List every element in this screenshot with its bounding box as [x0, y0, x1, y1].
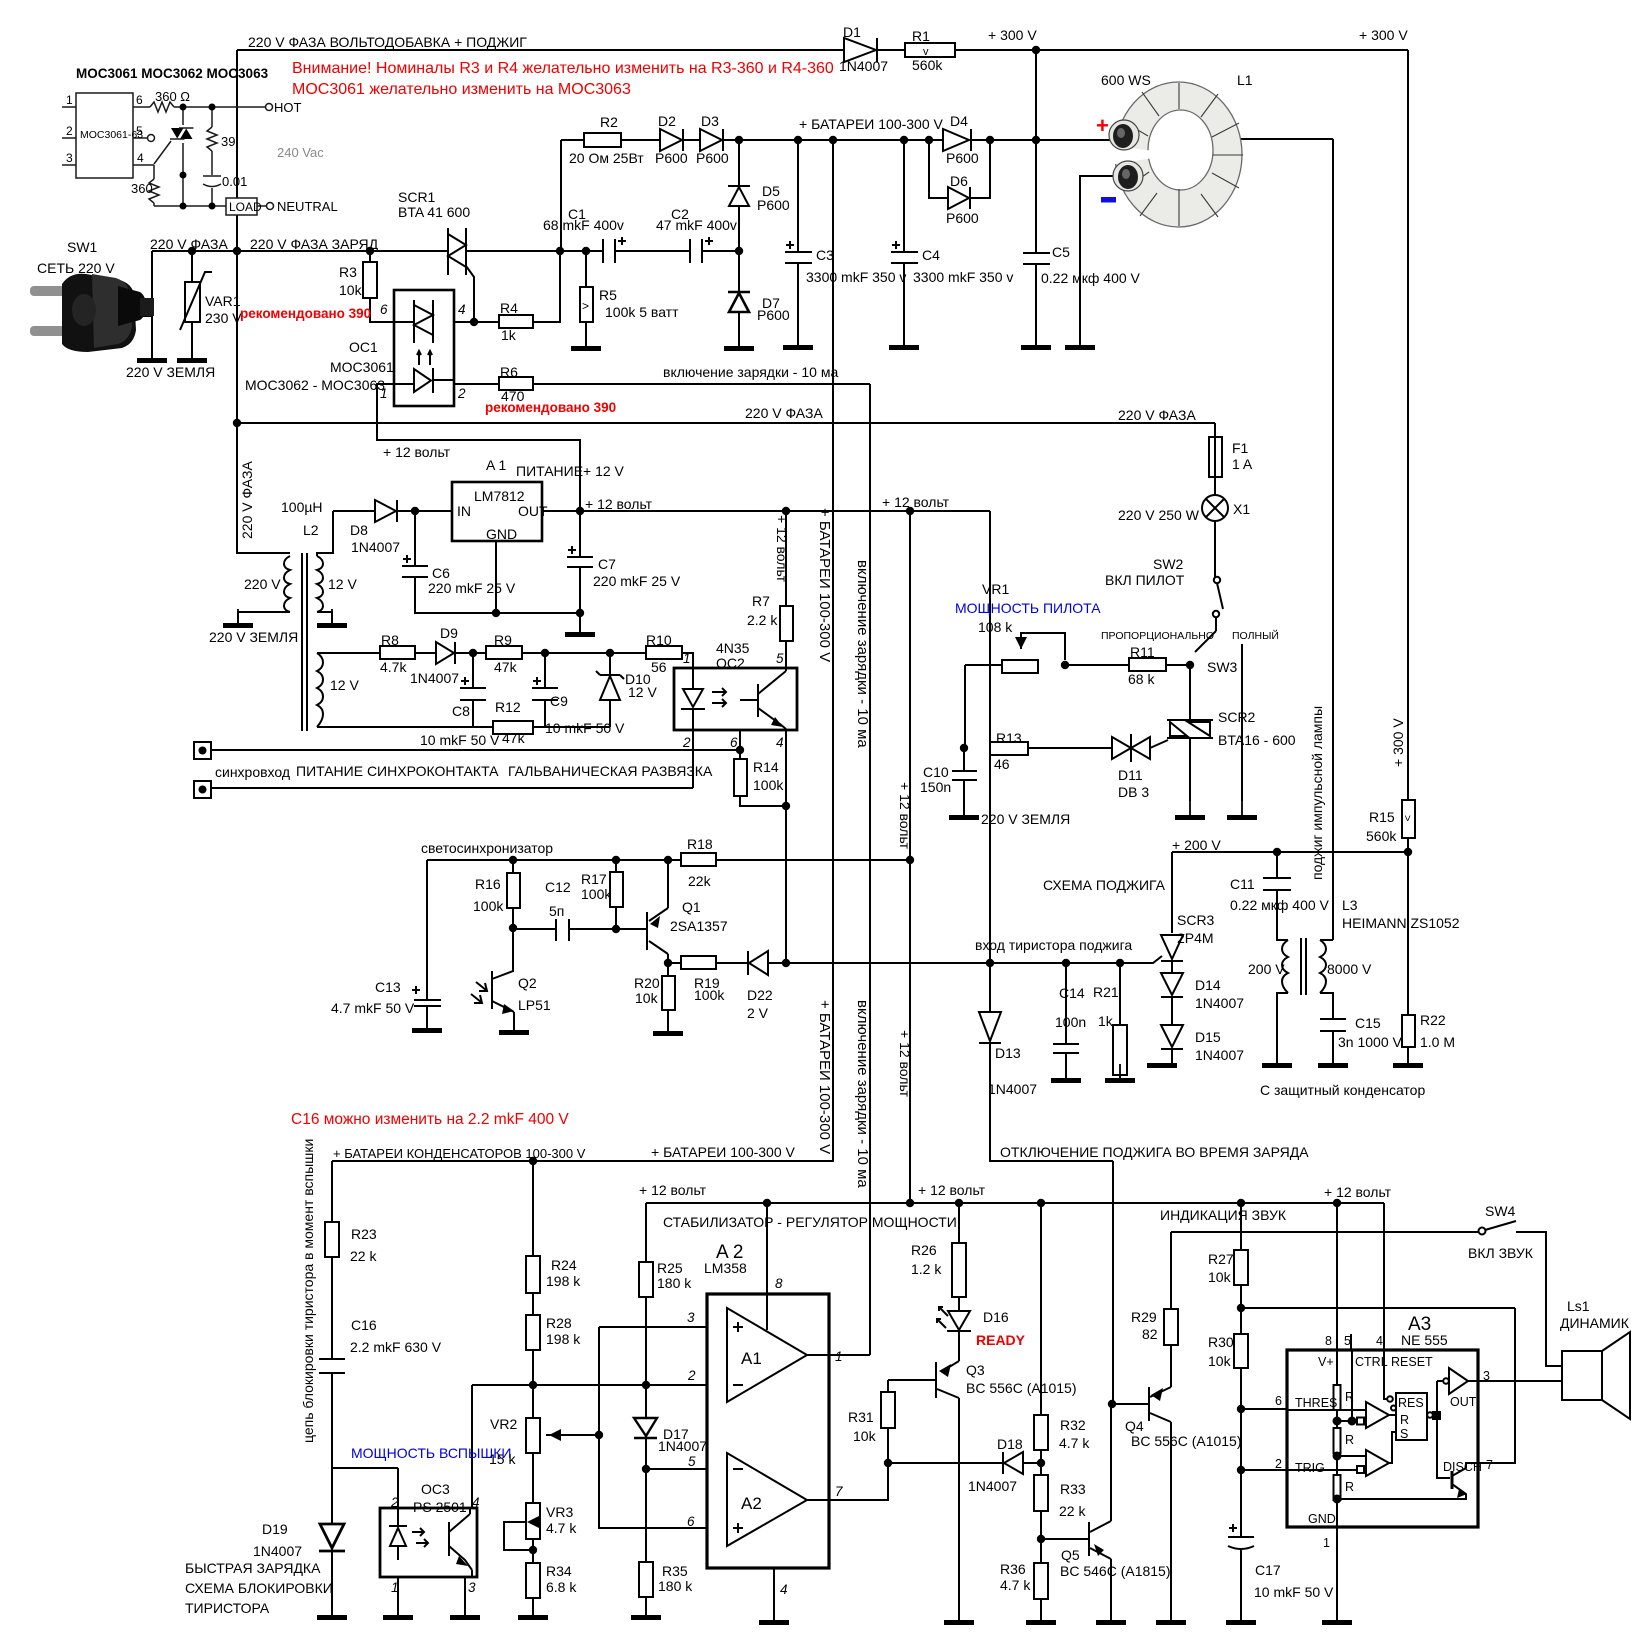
svg-text:NEUTRAL: NEUTRAL	[277, 199, 338, 214]
svg-text:Q3: Q3	[966, 1362, 985, 1378]
svg-text:МОЩНОСТЬ ВСПЫШКИ: МОЩНОСТЬ ВСПЫШКИ	[351, 1445, 511, 1461]
svg-text:100µH: 100µH	[281, 499, 323, 515]
svg-text:10k: 10k	[339, 282, 363, 298]
svg-text:+ 12 V: + 12 V	[583, 463, 625, 479]
svg-text:MOC3061 желательно изменить н: MOC3061 желательно изменить на MOC3063	[292, 81, 631, 98]
svg-text:ДИНАМИК: ДИНАМИК	[1560, 1315, 1630, 1331]
svg-text:SCR2: SCR2	[1218, 709, 1256, 725]
svg-text:C6: C6	[432, 565, 450, 581]
svg-text:100k 5 ватт: 100k 5 ватт	[605, 304, 679, 320]
svg-text:108 k: 108 k	[978, 619, 1013, 635]
svg-text:R25: R25	[657, 1260, 683, 1276]
svg-text:2.2 k: 2.2 k	[747, 612, 778, 628]
svg-text:Q4: Q4	[1125, 1418, 1144, 1434]
svg-text:5п: 5п	[549, 903, 564, 919]
svg-text:+ 12 вольт: + 12 вольт	[1324, 1184, 1392, 1200]
svg-text:LM7812: LM7812	[474, 488, 525, 504]
svg-text:7: 7	[1486, 1458, 1493, 1472]
svg-text:C15: C15	[1355, 1015, 1381, 1031]
svg-text:8000 V: 8000 V	[1327, 961, 1372, 977]
svg-text:220 V ФАЗА ЗАРЯД: 220 V ФАЗА ЗАРЯД	[250, 236, 379, 252]
svg-text:DISCH: DISCH	[1443, 1460, 1482, 1474]
svg-text:C17: C17	[1255, 1562, 1281, 1578]
svg-text:220 mkF 25 V: 220 mkF 25 V	[593, 573, 681, 589]
svg-text:5: 5	[688, 1454, 696, 1469]
svg-text:220 V ЗЕМЛЯ: 220 V ЗЕМЛЯ	[126, 364, 215, 380]
svg-text:10k: 10k	[853, 1428, 877, 1444]
svg-text:R6: R6	[500, 364, 518, 380]
svg-text:1N4007: 1N4007	[988, 1081, 1037, 1097]
svg-text:A 1: A 1	[486, 457, 506, 473]
svg-text:2SA1357: 2SA1357	[670, 918, 728, 934]
svg-text:5: 5	[776, 651, 784, 666]
svg-text:360: 360	[131, 181, 153, 196]
svg-text:LOAD: LOAD	[229, 200, 262, 214]
svg-text:P600: P600	[757, 197, 790, 213]
svg-text:D3: D3	[701, 113, 719, 129]
svg-text:0.22 мкф 400 V: 0.22 мкф 400 V	[1041, 270, 1141, 286]
svg-text:3n 1000 V: 3n 1000 V	[1338, 1034, 1402, 1050]
svg-text:Внимание! Номиналы R3 и R4 же: Внимание! Номиналы R3 и R4 желательно из…	[292, 60, 834, 77]
svg-text:OC2: OC2	[716, 655, 745, 671]
svg-text:1N4007: 1N4007	[1195, 995, 1244, 1011]
svg-text:SCR3: SCR3	[1177, 912, 1215, 928]
svg-text:CTRL: CTRL	[1355, 1355, 1388, 1369]
svg-text:3: 3	[687, 1310, 695, 1325]
svg-text:3: 3	[468, 1580, 476, 1595]
svg-text:2.2 mkF 630 V: 2.2 mkF 630 V	[350, 1339, 442, 1355]
svg-text:+ 300 V: + 300 V	[1390, 718, 1406, 767]
svg-text:1: 1	[835, 1349, 843, 1364]
svg-text:R3: R3	[339, 264, 357, 280]
svg-text:синхровход: синхровход	[215, 764, 290, 780]
svg-text:4: 4	[137, 151, 144, 165]
svg-text:4N35: 4N35	[716, 640, 750, 656]
svg-text:P600: P600	[946, 210, 979, 226]
svg-text:ГАЛЬВАНИЧЕСКАЯ РАЗВЯЗКА: ГАЛЬВАНИЧЕСКАЯ РАЗВЯЗКА	[508, 763, 713, 779]
svg-text:1 A: 1 A	[1232, 456, 1253, 472]
svg-text:1N4007: 1N4007	[351, 539, 400, 555]
svg-text:8: 8	[775, 1276, 783, 1291]
svg-text:4.7 mkF 50 V: 4.7 mkF 50 V	[331, 1000, 415, 1016]
svg-text:R11: R11	[1130, 644, 1155, 660]
svg-text:8: 8	[1325, 1334, 1332, 1348]
svg-text:ОТКЛЮЧЕНИЕ ПОДЖИГА ВО ВРЕМЯ ЗА: ОТКЛЮЧЕНИЕ ПОДЖИГА ВО ВРЕМЯ ЗАРЯДА	[1000, 1144, 1309, 1160]
svg-text:240 Vac: 240 Vac	[277, 145, 324, 160]
svg-text:включение зарядки - 10 ма: включение зарядки - 10 ма	[854, 1000, 871, 1188]
svg-text:R7: R7	[752, 593, 770, 609]
svg-text:GND: GND	[486, 526, 517, 542]
svg-text:R22: R22	[1420, 1012, 1446, 1028]
svg-text:MOC3061-63: MOC3061-63	[80, 129, 143, 141]
svg-text:BC 556C (A1015): BC 556C (A1015)	[966, 1380, 1077, 1396]
svg-text:LP51: LP51	[518, 997, 551, 1013]
svg-text:включение зарядки - 10 ма: включение зарядки - 10 ма	[854, 560, 871, 748]
svg-text:220 V ФАЗА: 220 V ФАЗА	[150, 236, 228, 252]
svg-text:+ БАТАРЕИ 100-300 V: + БАТАРЕИ 100-300 V	[799, 116, 944, 132]
svg-text:5: 5	[1344, 1334, 1351, 1348]
svg-text:R5: R5	[599, 287, 617, 303]
svg-text:1: 1	[391, 1580, 399, 1595]
svg-text:Q5: Q5	[1061, 1547, 1080, 1563]
svg-text:MOC3061 MOC3062 MOC3063: MOC3061 MOC3062 MOC3063	[76, 66, 269, 81]
svg-text:47k: 47k	[502, 730, 526, 746]
svg-text:RES: RES	[1398, 1396, 1424, 1410]
svg-text:C5: C5	[1052, 244, 1070, 260]
svg-text:R15: R15	[1369, 809, 1395, 825]
svg-text:360 Ω: 360 Ω	[155, 89, 190, 104]
svg-text:A1: A1	[741, 1349, 762, 1368]
svg-text:R32: R32	[1060, 1417, 1086, 1433]
svg-text:20 Ом 25Вт: 20 Ом 25Вт	[569, 150, 644, 166]
svg-text:2: 2	[687, 1368, 696, 1383]
svg-text:MOC3061: MOC3061	[330, 359, 394, 375]
svg-text:R14: R14	[753, 759, 779, 775]
svg-text:СХЕМА ПОДЖИГА: СХЕМА ПОДЖИГА	[1043, 877, 1166, 893]
svg-text:C10: C10	[923, 764, 949, 780]
svg-text:+ 300 V: + 300 V	[988, 27, 1037, 43]
svg-text:SCR1: SCR1	[398, 189, 436, 205]
svg-text:47 mkF 400v: 47 mkF 400v	[656, 217, 737, 233]
svg-text:>: >	[1401, 815, 1413, 821]
svg-text:OUT: OUT	[1450, 1395, 1477, 1409]
svg-text:R8: R8	[381, 632, 399, 648]
svg-text:цепь блокировки тиристора в мо: цепь блокировки тиристора в момент вспыш…	[300, 1139, 316, 1443]
svg-text:+ 12 вольт: + 12 вольт	[585, 496, 653, 512]
svg-text:R9: R9	[494, 632, 512, 648]
svg-text:4: 4	[472, 1495, 480, 1510]
svg-text:22 k: 22 k	[350, 1248, 377, 1264]
svg-text:68 mkF 400v: 68 mkF 400v	[543, 217, 624, 233]
svg-text:SW2: SW2	[1153, 556, 1184, 572]
svg-text:OUT: OUT	[518, 503, 548, 519]
svg-text:READY: READY	[976, 1332, 1026, 1348]
svg-text:12 V: 12 V	[328, 576, 357, 592]
svg-text:6.8 k: 6.8 k	[546, 1579, 577, 1595]
svg-text:A2: A2	[741, 1494, 762, 1513]
svg-text:D11: D11	[1118, 767, 1143, 783]
svg-text:L2: L2	[303, 522, 319, 538]
svg-text:R35: R35	[662, 1563, 688, 1579]
svg-text:R: R	[1345, 1480, 1354, 1494]
svg-text:F1: F1	[1232, 440, 1249, 456]
svg-text:С защитный конденсатор: С защитный конденсатор	[1260, 1082, 1425, 1098]
svg-text:10k: 10k	[635, 990, 659, 1006]
svg-text:1.2 k: 1.2 k	[911, 1261, 942, 1277]
svg-text:68 k: 68 k	[1128, 671, 1155, 687]
svg-text:22k: 22k	[688, 873, 712, 889]
svg-text:6: 6	[136, 93, 143, 107]
svg-text:HOT: HOT	[274, 100, 302, 115]
svg-text:P600: P600	[696, 150, 729, 166]
svg-text:HEIMANN ZS1052: HEIMANN ZS1052	[1342, 915, 1460, 931]
svg-text:2: 2	[1275, 1457, 1282, 1471]
svg-text:12 V: 12 V	[330, 677, 359, 693]
svg-text:C12: C12	[545, 879, 571, 895]
svg-text:D16: D16	[983, 1309, 1009, 1325]
svg-text:220 V ЗЕМЛЯ: 220 V ЗЕМЛЯ	[209, 629, 298, 645]
svg-text:1N4007: 1N4007	[1195, 1047, 1244, 1063]
svg-text:С16 можно изменить на 2.2 mkF: С16 можно изменить на 2.2 mkF 400 V	[291, 1111, 569, 1128]
svg-text:СТАБИЛИЗАТОР - РЕГУЛЯТОР МОЩНО: СТАБИЛИЗАТОР - РЕГУЛЯТОР МОЩНОСТИ	[663, 1214, 957, 1230]
svg-text:0.01: 0.01	[222, 174, 247, 189]
svg-text:+ 12 вольт: + 12 вольт	[774, 515, 790, 583]
svg-text:SW4: SW4	[1485, 1203, 1516, 1219]
svg-text:+: +	[1096, 113, 1109, 138]
svg-text:ВКЛ ЗВУК: ВКЛ ЗВУК	[1468, 1245, 1534, 1261]
svg-text:3: 3	[66, 151, 73, 165]
svg-text:1: 1	[66, 93, 73, 107]
svg-text:R: R	[1345, 1433, 1354, 1447]
svg-text:220 mkF 25 V: 220 mkF 25 V	[428, 580, 516, 596]
svg-text:5: 5	[136, 124, 143, 138]
svg-text:LM358: LM358	[704, 1260, 747, 1276]
svg-text:150n: 150n	[920, 779, 951, 795]
svg-text:C8: C8	[452, 703, 470, 719]
svg-text:4.7 k: 4.7 k	[1000, 1577, 1031, 1593]
svg-text:D1: D1	[843, 24, 861, 40]
svg-text:MOC3062 - MOC3063: MOC3062 - MOC3063	[245, 377, 385, 393]
svg-text:ТИРИСТОРА: ТИРИСТОРА	[185, 1600, 270, 1616]
svg-text:198 k: 198 k	[546, 1273, 581, 1289]
svg-text:P600: P600	[655, 150, 688, 166]
svg-text:+ 12 вольт: + 12 вольт	[882, 494, 950, 510]
svg-text:1: 1	[1323, 1536, 1330, 1550]
svg-text:P600: P600	[946, 150, 979, 166]
svg-text:рекомендовано 390: рекомендовано 390	[485, 400, 616, 415]
svg-text:56: 56	[651, 659, 667, 675]
svg-text:1k: 1k	[1098, 1013, 1114, 1029]
svg-text:560k: 560k	[912, 57, 943, 73]
svg-text:1N4007: 1N4007	[253, 1543, 302, 1559]
svg-text:NE 555: NE 555	[1401, 1332, 1448, 1348]
svg-text:1: 1	[380, 386, 388, 401]
svg-text:BTA16 - 600: BTA16 - 600	[1218, 732, 1296, 748]
svg-text:вход тиристора поджига: вход тиристора поджига	[975, 937, 1132, 953]
svg-text:0.22 мкф 400 V: 0.22 мкф 400 V	[1230, 897, 1330, 913]
svg-text:600 WS: 600 WS	[1101, 72, 1151, 88]
svg-text:R18: R18	[687, 836, 713, 852]
svg-text:15 k: 15 k	[489, 1451, 516, 1467]
svg-text:СЕТЬ 220 V: СЕТЬ 220 V	[37, 260, 115, 276]
svg-text:BTA 41 600: BTA 41 600	[398, 204, 470, 220]
svg-text:+ 12 вольт: + 12 вольт	[918, 1182, 986, 1198]
svg-text:1.0 M: 1.0 M	[1420, 1034, 1455, 1050]
svg-text:D15: D15	[1195, 1029, 1221, 1045]
svg-text:R27: R27	[1208, 1251, 1234, 1267]
svg-text:R16: R16	[475, 876, 501, 892]
svg-text:220 V 250 W: 220 V 250 W	[1118, 507, 1200, 523]
svg-text:7: 7	[835, 1484, 843, 1499]
svg-text:+ БАТАРЕИ 100-300 V: + БАТАРЕИ 100-300 V	[651, 1144, 796, 1160]
svg-text:+ 12 вольт: + 12 вольт	[383, 444, 451, 460]
svg-text:R12: R12	[495, 699, 521, 715]
svg-text:1N4007: 1N4007	[410, 670, 459, 686]
svg-text:4: 4	[780, 1582, 788, 1597]
svg-text:6: 6	[730, 735, 738, 750]
svg-text:C4: C4	[922, 247, 940, 263]
svg-text:C13: C13	[375, 979, 401, 995]
svg-text:BC 546C (A1815): BC 546C (A1815)	[1060, 1563, 1171, 1579]
svg-text:R1: R1	[912, 28, 930, 44]
svg-text:BC 556C (A1015): BC 556C (A1015)	[1131, 1433, 1242, 1449]
svg-text:R24: R24	[551, 1257, 577, 1273]
svg-text:R29: R29	[1131, 1309, 1157, 1325]
svg-text:180 k: 180 k	[657, 1275, 692, 1291]
svg-text:D4: D4	[950, 113, 968, 129]
svg-text:2: 2	[390, 1495, 399, 1510]
svg-text:198 k: 198 k	[546, 1331, 581, 1347]
svg-text:6: 6	[687, 1514, 695, 1529]
svg-text:R17: R17	[581, 871, 607, 887]
svg-text:200 V: 200 V	[1248, 961, 1285, 977]
svg-text:2P4M: 2P4M	[1177, 930, 1214, 946]
svg-text:C11: C11	[1230, 876, 1255, 892]
svg-text:180 k: 180 k	[658, 1578, 693, 1594]
svg-text:RESET: RESET	[1391, 1355, 1433, 1369]
svg-text:IN: IN	[457, 503, 471, 519]
svg-text:S: S	[1400, 1427, 1408, 1441]
svg-text:4.7 k: 4.7 k	[546, 1520, 577, 1536]
svg-text:R36: R36	[1000, 1561, 1026, 1577]
svg-text:R10: R10	[646, 632, 672, 648]
svg-text:GND: GND	[1308, 1512, 1336, 1526]
svg-text:2: 2	[457, 386, 466, 401]
svg-text:10k: 10k	[1208, 1269, 1232, 1285]
svg-text:D19: D19	[262, 1521, 288, 1537]
svg-text:D9: D9	[440, 625, 458, 641]
svg-text:230 V: 230 V	[205, 310, 242, 326]
svg-text:БЫСТРАЯ ЗАРЯДКА: БЫСТРАЯ ЗАРЯДКА	[185, 1560, 321, 1576]
svg-text:220 V ФАЗА: 220 V ФАЗА	[745, 405, 823, 421]
svg-text:2: 2	[66, 124, 73, 138]
svg-text:+ 12 вольт: + 12 вольт	[639, 1182, 707, 1198]
svg-text:D13: D13	[995, 1045, 1021, 1061]
svg-text:1: 1	[683, 651, 691, 666]
svg-text:ПИТАНИЕ: ПИТАНИЕ	[516, 463, 583, 479]
svg-text:100k: 100k	[694, 987, 725, 1003]
svg-text:R20: R20	[634, 975, 660, 991]
svg-text:+ БАТАРЕИ КОНДЕНСАТОРОВ 100-: + БАТАРЕИ КОНДЕНСАТОРОВ 100-300 V	[333, 1146, 586, 1161]
svg-text:R: R	[1400, 1413, 1409, 1427]
svg-text:включение зарядки - 10 ма: включение зарядки - 10 ма	[663, 364, 838, 380]
svg-text:4: 4	[458, 302, 466, 317]
svg-text:1k: 1k	[501, 327, 517, 343]
svg-text:10k: 10k	[1208, 1353, 1232, 1369]
svg-text:VR3: VR3	[546, 1504, 573, 1520]
svg-text:R28: R28	[546, 1315, 572, 1331]
svg-text:47k: 47k	[494, 659, 518, 675]
svg-text:Q1: Q1	[682, 899, 701, 915]
svg-text:220 V ФАЗА: 220 V ФАЗА	[1118, 407, 1196, 423]
svg-text:светосинхронизатор: светосинхронизатор	[421, 840, 553, 856]
svg-text:D6: D6	[950, 173, 968, 189]
svg-text:R21: R21	[1093, 984, 1119, 1000]
svg-text:R31: R31	[848, 1409, 874, 1425]
svg-text:OC3: OC3	[421, 1481, 450, 1497]
svg-text:поджиг импульсной лампы: поджиг импульсной лампы	[1309, 706, 1325, 880]
svg-text:22 k: 22 k	[1059, 1503, 1086, 1519]
svg-text:+ 300 V: + 300 V	[1359, 27, 1408, 43]
svg-text:C3: C3	[816, 247, 834, 263]
svg-text:R30: R30	[1208, 1334, 1234, 1350]
svg-text:R13: R13	[996, 730, 1022, 746]
svg-text:R26: R26	[911, 1242, 937, 1258]
svg-text:D18: D18	[997, 1436, 1023, 1452]
svg-text:PS 2501: PS 2501	[413, 1499, 467, 1515]
svg-text:560k: 560k	[1366, 828, 1397, 844]
svg-text:3: 3	[1483, 1369, 1490, 1383]
svg-text:DB 3: DB 3	[1118, 784, 1149, 800]
svg-text:Ls1: Ls1	[1567, 1298, 1590, 1314]
svg-text:100n: 100n	[1055, 1014, 1086, 1030]
svg-text:OC1: OC1	[349, 339, 378, 355]
svg-text:C14: C14	[1059, 985, 1085, 1001]
svg-text:6: 6	[1275, 1394, 1282, 1408]
svg-text:46: 46	[994, 756, 1010, 772]
svg-text:10 mkF 50 V: 10 mkF 50 V	[1254, 1584, 1334, 1600]
svg-text:4.7 k: 4.7 k	[1059, 1435, 1090, 1451]
svg-text:VAR1: VAR1	[205, 293, 241, 309]
svg-text:рекомендовано 390: рекомендовано 390	[240, 306, 371, 321]
svg-text:220 V ЗЕМЛЯ: 220 V ЗЕМЛЯ	[981, 811, 1070, 827]
svg-text:TRIG: TRIG	[1295, 1461, 1325, 1475]
svg-text:R2: R2	[600, 114, 618, 130]
svg-text:C9: C9	[550, 693, 568, 709]
svg-text:ПРОПОРЦИОНАЛЬНО: ПРОПОРЦИОНАЛЬНО	[1101, 630, 1214, 642]
svg-text:C7: C7	[598, 556, 616, 572]
svg-text:82: 82	[1142, 1326, 1158, 1342]
svg-text:ВКЛ ПИЛОТ: ВКЛ ПИЛОТ	[1105, 572, 1185, 588]
svg-text:D2: D2	[658, 113, 676, 129]
svg-text:P600: P600	[757, 307, 790, 323]
svg-text:+ БАТАРЕИ 100-300 V: + БАТАРЕИ 100-300 V	[816, 508, 833, 662]
svg-text:МОЩНОСТЬ ПИЛОТА: МОЩНОСТЬ ПИЛОТА	[955, 600, 1101, 616]
svg-text:3300 mkF 350 v: 3300 mkF 350 v	[913, 269, 1013, 285]
svg-text:220 V ФАЗА ВОЛЬТОДОБАВКА + П: 220 V ФАЗА ВОЛЬТОДОБАВКА + ПОДЖИГ	[248, 34, 527, 50]
svg-text:D22: D22	[747, 987, 773, 1003]
svg-text:+ 12 вольт: + 12 вольт	[897, 782, 913, 850]
svg-text:+ БАТАРЕИ 100-300 V: + БАТАРЕИ 100-300 V	[816, 1000, 833, 1154]
svg-text:ПИТАНИЕ СИНХРОКОНТАКТА: ПИТАНИЕ СИНХРОКОНТАКТА	[296, 763, 499, 779]
svg-text:R34: R34	[546, 1563, 572, 1579]
svg-text:4.7k: 4.7k	[380, 659, 407, 675]
svg-text:100k: 100k	[753, 777, 784, 793]
svg-text:3300 mkF 350 v: 3300 mkF 350 v	[806, 269, 906, 285]
svg-text:100k: 100k	[473, 898, 504, 914]
svg-text:D14: D14	[1195, 977, 1221, 993]
svg-text:220 V ФАЗА: 220 V ФАЗА	[239, 461, 255, 539]
svg-text:10 mkF 50 V: 10 mkF 50 V	[545, 720, 625, 736]
svg-text:220 V: 220 V	[244, 576, 281, 592]
svg-text:SW1: SW1	[67, 239, 98, 255]
svg-text:СХЕМА БЛОКИРОВКИ: СХЕМА БЛОКИРОВКИ	[185, 1580, 333, 1596]
svg-text:2: 2	[682, 735, 691, 750]
svg-text:C16: C16	[351, 1317, 377, 1333]
svg-text:R: R	[1345, 1390, 1354, 1404]
svg-text:6: 6	[380, 302, 388, 317]
svg-text:+ 200 V: + 200 V	[1172, 837, 1221, 853]
svg-text:VR1: VR1	[982, 581, 1009, 597]
svg-text:4: 4	[776, 735, 784, 750]
svg-text:2 V: 2 V	[747, 1005, 769, 1021]
svg-text:THRES: THRES	[1295, 1396, 1337, 1410]
svg-text:1N4007: 1N4007	[839, 58, 888, 74]
svg-text:SW3: SW3	[1207, 659, 1238, 675]
svg-text:12 V: 12 V	[628, 684, 657, 700]
svg-text:VR2: VR2	[490, 1416, 517, 1432]
svg-text:L1: L1	[1237, 72, 1253, 88]
